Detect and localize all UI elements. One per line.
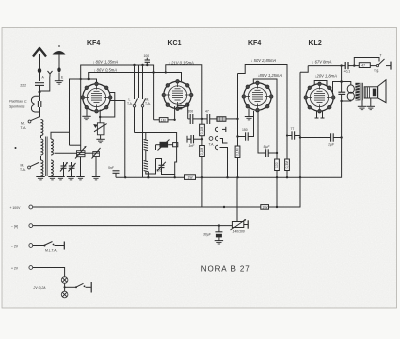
- wire bypass loop: [354, 58, 379, 66]
- capacitor 0,1 output: [344, 62, 346, 69]
- terminal output bar: [390, 62, 392, 70]
- wire primary bottom lead: [342, 100, 351, 102]
- capacitor 1uF: [330, 133, 332, 141]
- potentiometer grid leak tube1: [93, 123, 106, 140]
- switch output: [370, 65, 377, 67]
- wire tube1 cathode to bus: [110, 101, 125, 178]
- resistor in AVC bus: [185, 175, 196, 180]
- ground potentiometer: [96, 139, 104, 142]
- wire osc coil joins: [145, 151, 147, 161]
- tube V3 KF4: [242, 81, 273, 112]
- capacitor 77: [291, 131, 293, 139]
- ground tube2: [177, 106, 185, 109]
- wire tube1 cathode stub: [86, 108, 88, 116]
- resistor 47 output: [359, 63, 370, 68]
- wire bus to volume pot: [236, 177, 238, 221]
- resistor osc small: [173, 143, 178, 147]
- wire grid stopper loop tube4: [314, 81, 327, 87]
- wire 85V loop tube3: [253, 79, 277, 159]
- transformer core: [360, 83, 362, 101]
- lamp dial 1: [61, 277, 68, 284]
- terminal -2V: [29, 244, 33, 248]
- wire 86V screen feed: [89, 73, 182, 82]
- potentiometer volume 140/100: [232, 222, 243, 228]
- wire tube3 cathode stub: [248, 109, 250, 117]
- wire AVC bus: [116, 94, 342, 177]
- wire tube2 cathode stub: [180, 104, 182, 107]
- fork contact between A and E: [40, 71, 53, 91]
- ground tube3: [245, 117, 253, 120]
- coil RF secondary lower: [41, 160, 43, 176]
- coil oscillator upper: [144, 140, 148, 151]
- capacitor 30uF electrolytic: [218, 226, 220, 232]
- speaker cone: [378, 80, 386, 103]
- wire tube2 cathode pin stub: [174, 106, 176, 120]
- wire -A rail: [33, 225, 232, 227]
- switch M.L.T.A.: [33, 245, 44, 247]
- wire grid circuit tube1: [70, 79, 97, 145]
- wire HT segment stage1: [81, 65, 154, 151]
- resistor 100: [275, 159, 280, 171]
- inductor variable osc: [160, 142, 169, 148]
- wire bus to +100V rail link: [276, 177, 278, 207]
- stray dot: [15, 147, 17, 149]
- trimmer capacitor left: [61, 165, 67, 167]
- transformer secondary winding: [355, 83, 359, 101]
- switch M.T.A. band upper: [28, 120, 31, 123]
- variable capacitor tuning gang 1: [75, 146, 87, 177]
- terminal +100V: [29, 205, 33, 209]
- wire switch lower to coil: [40, 156, 42, 160]
- trimmer padding capacitor osc: [159, 164, 165, 166]
- transformer primary winding: [347, 85, 354, 93]
- coil RF secondary upper: [41, 139, 43, 155]
- trimmer capacitor right: [69, 165, 75, 167]
- tube V4 KL2: [304, 82, 335, 113]
- capacitor 200 coupling: [189, 114, 191, 124]
- resistor 0,3M: [285, 159, 290, 171]
- capacitor tone across primary: [338, 91, 345, 93]
- capacitor 47 coupling: [206, 114, 208, 124]
- coil oscillator lower: [144, 161, 148, 172]
- wire tube1 bottom pin to loop: [99, 110, 101, 123]
- node anode chain: [201, 118, 203, 120]
- wire tube1 feedback loop: [100, 93, 115, 118]
- wire gang link: [85, 152, 93, 154]
- antenna: [33, 49, 46, 57]
- lamp dial 2: [61, 291, 68, 298]
- jack pickup lower: [215, 145, 218, 149]
- switch L T.A.: [134, 99, 138, 106]
- wire wave band line 2: [142, 65, 144, 99]
- wire coil link: [40, 136, 42, 139]
- tube V1 KF4: [81, 82, 112, 113]
- wire +100V rail: [33, 72, 300, 207]
- wire grid coupling tube4: [300, 66, 308, 73]
- resistor 0,1M grid tube3: [235, 146, 240, 158]
- wire tube2 anode lead: [187, 104, 189, 119]
- ground tube1: [82, 116, 90, 119]
- terminal +2V: [29, 266, 33, 270]
- wire tube4 anode to transformer: [333, 82, 342, 93]
- jack pickup upper: [215, 127, 218, 131]
- core lines transformer: [45, 137, 47, 177]
- tube V2 KC1: [162, 80, 193, 111]
- node -A junction: [218, 224, 220, 226]
- wire lamp tap to switch: [64, 286, 66, 288]
- capacitor 150 coupling tube3: [245, 132, 247, 140]
- wire osc line: [138, 65, 140, 98]
- ground tuned coil: [50, 175, 52, 178]
- wire transformer tap riser: [341, 66, 343, 93]
- resistor 0,1M vertical: [200, 124, 205, 136]
- capacitor 1nF: [190, 135, 192, 143]
- oscillator frame top: [135, 133, 177, 143]
- wire 21V loop tube2: [166, 65, 202, 119]
- wave trap coil arcs: [31, 97, 34, 112]
- wire +100V riser to bus: [201, 177, 203, 207]
- ground transformer secondary: [361, 100, 363, 106]
- resistor 1M grid leak: [159, 118, 168, 122]
- capacitor wave trap: [37, 101, 39, 107]
- wire tube2 grid lead: [154, 119, 160, 121]
- coil tuned winding lower: [51, 160, 53, 176]
- wire grid tap: [70, 144, 81, 146]
- node +100V junctions: [223, 206, 225, 208]
- wire 50V loop tube3: [238, 65, 288, 136]
- wire primary top lead: [342, 82, 351, 86]
- wire pot to terminal bar: [244, 224, 248, 226]
- wire wave band line 1: [134, 65, 136, 99]
- node bus junctions: [124, 176, 126, 178]
- switch M.T.A. band lower: [28, 166, 31, 169]
- coil tuned winding upper: [51, 139, 53, 155]
- switch M T.A. mid: [142, 99, 146, 106]
- ground left coil: [40, 175, 42, 178]
- resistor lower vertical tube2: [200, 146, 205, 157]
- capacitor 5uF cathode tube3: [265, 149, 267, 157]
- capacitor padder link: [146, 159, 156, 175]
- pickup symbol: [209, 137, 213, 141]
- resistor 1W in +100V rail: [261, 205, 269, 210]
- wire tuned circuit top: [51, 132, 70, 139]
- terminal -A: [29, 224, 33, 228]
- wire output terminal line: [308, 65, 345, 67]
- capacitor 5nF bus end: [113, 170, 120, 172]
- variable capacitor tuning gang 2: [92, 148, 101, 177]
- capacitor 47 grid osc: [145, 59, 150, 61]
- wire tube4 filament stubs: [316, 111, 318, 119]
- ground speaker: [370, 98, 372, 106]
- wire +2V to lamps: [33, 268, 65, 277]
- coil antenna primary: [41, 120, 43, 136]
- resistor 10000: [217, 117, 226, 122]
- ground earth lead: [55, 81, 63, 84]
- earth terminal: [53, 51, 66, 55]
- speaker voice coil: [364, 87, 377, 98]
- jack pickup mid: [215, 136, 218, 140]
- capacitor 222 antenna series: [35, 82, 44, 84]
- node stage1 rail junctions: [133, 64, 135, 66]
